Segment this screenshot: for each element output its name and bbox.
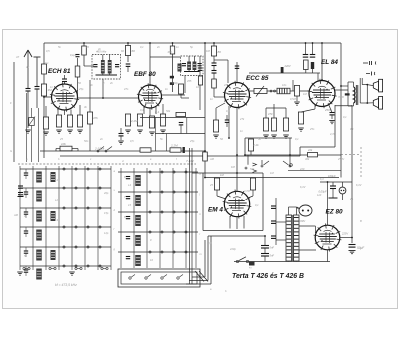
wire x=128 ext (127, 67, 129, 73)
wire x=84 into IF1 cap (84, 65, 94, 67)
svg-text:AM: AM (13, 213, 19, 217)
capacitor C27 on x=128 drop (126, 63, 131, 65)
coil L5 with core (36, 250, 42, 261)
ground R5 (77, 129, 83, 131)
capacitor C15 (271, 235, 276, 237)
resistor R23 cathode EL84 (298, 112, 303, 124)
coil L3 with core (36, 211, 42, 222)
wire C23 (180, 125, 182, 134)
wire vertical x=245 (244, 138, 246, 155)
resistor R11 (137, 114, 142, 126)
wire vertical drop x=84 (83, 43, 85, 66)
svg-text:7-102: 7-102 (186, 159, 194, 163)
wire vertical x=300 link (299, 147, 301, 156)
tuner right half column wires (120, 168, 122, 268)
ground bar C18 (329, 197, 338, 199)
wire T2 to EBF80 plate link (184, 76, 186, 94)
IF transformer T1 shield can (92, 55, 121, 80)
svg-text:80: 80 (218, 50, 222, 54)
svg-text:ECC 85: ECC 85 (246, 75, 269, 82)
wire vertical drop x=214 (213, 43, 215, 56)
wire EBF80 pins down (143, 107, 145, 114)
wire mains line y=261.5 (234, 261, 330, 263)
svg-text:12p: 12p (104, 231, 109, 235)
wire nested return 3 (186, 283, 211, 285)
svg-text:60: 60 (132, 49, 136, 53)
capacitor C11 top (310, 54, 316, 56)
resistor R8 top x=128 (125, 46, 130, 56)
ground R23 (298, 127, 304, 129)
wire y=155 link under ECC85 (245, 154, 341, 156)
trimmer capacitor CT1 (29, 118, 35, 126)
resistor R12 (149, 116, 154, 128)
ground R11 (137, 129, 143, 131)
wire vertical x=335 (334, 105, 336, 147)
wire C12 (328, 103, 332, 113)
svg-text:220p: 220p (229, 247, 236, 251)
coil L21 (135, 195, 141, 206)
switch contacts on audio line (270, 90, 272, 92)
wire vertical drop x=172.5 (172, 43, 174, 92)
connector symbol 2 (366, 73, 370, 75)
wire transformer left leads (276, 221, 286, 223)
coil L14 (51, 250, 56, 260)
svg-text:0,05μF: 0,05μF (319, 190, 327, 194)
wire C8 (226, 115, 228, 120)
capacitor dark C22 (311, 62, 314, 69)
resistor R22 screen (304, 60, 309, 70)
wire FM dipole x=200 (199, 56, 201, 110)
ground R3 (56, 129, 62, 131)
wire C16 C17 vertical (264, 236, 266, 246)
wire switch row stubs (247, 155, 249, 165)
wire R2-R5 to AVC line (45, 129, 47, 151)
dashed HT continuation (341, 154, 361, 156)
wire AVC line y=151 (40, 150, 205, 152)
band switch contact S1c (289, 165, 291, 167)
wire screen bus y=177.5 (205, 177, 339, 179)
switch contacts row 6 (63, 265, 65, 267)
wire EM4 pins bottom (229, 216, 231, 229)
capacitor on dipole line (198, 67, 203, 69)
IF transformer T2 shield can (181, 56, 204, 76)
svg-text:EL 84: EL 84 (321, 59, 338, 66)
switch contact on AVC line a (97, 150, 99, 152)
resistor R29 right of ECH81 top (75, 66, 80, 77)
wire to ECC85 grid (213, 88, 215, 97)
wire EM4 loop bottom (203, 230, 263, 232)
svg-text:0,1: 0,1 (208, 241, 212, 245)
svg-text:G: G (10, 149, 12, 153)
coil L1 with core (36, 172, 42, 183)
wire ECH81 grid from rail (44, 96, 52, 98)
capacitor tuner right row 5 (126, 256, 130, 258)
svg-text:25p: 25p (78, 87, 84, 91)
wire left rail x=26.3 (25, 93, 27, 162)
capacitor tuner right row 4 (126, 236, 130, 238)
ground R20 (283, 134, 289, 136)
svg-text:47k: 47k (93, 116, 98, 120)
resistor R10 (125, 114, 130, 126)
wire EZ80 bottom (327, 250, 329, 262)
coil L2 with core (36, 191, 42, 202)
capacitor C13 (271, 205, 276, 207)
switch contacts right row 2 (149, 191, 151, 193)
resistor R5 (77, 115, 82, 127)
coil L4 with core (36, 230, 42, 241)
resistor R27 volume feed (140, 148, 151, 152)
ground R12 (149, 131, 155, 133)
svg-text:2A: 2A (349, 197, 353, 201)
dashed boundary of tuner unit (18, 163, 196, 165)
svg-text:0,5: 0,5 (46, 49, 50, 53)
capacitor C7 (235, 65, 240, 67)
wire antenna A1 down (27, 91, 29, 128)
pilot lamp (339, 187, 346, 194)
ground R4 (67, 129, 73, 131)
antenna A1 symbol (24, 50, 28, 57)
svg-text:6,3V: 6,3V (356, 183, 362, 187)
svg-text:15p: 15p (104, 211, 109, 215)
wire AVC stub (56, 148, 60, 150)
resistor R15b (212, 79, 217, 88)
trimmer capacitor row 1 (24, 172, 28, 174)
wire C18 leads (332, 182, 334, 186)
svg-text:47n: 47n (124, 87, 129, 91)
wire x214 links (213, 56, 215, 63)
capacitor C6b (212, 70, 217, 72)
wire vertical x=322 to EL84 (321, 43, 323, 80)
capacitor C10 top (303, 54, 309, 56)
trimmer capacitor row 5 (24, 250, 28, 252)
svg-text:0,1: 0,1 (140, 45, 144, 49)
coil L10 (51, 172, 56, 182)
svg-text:220V: 220V (298, 219, 305, 223)
ground C5 (118, 140, 124, 142)
ground R19 (271, 134, 277, 136)
resistor R16 left of ECC85 (213, 120, 218, 132)
svg-text:455: 455 (187, 79, 192, 83)
resistor R24 EM4 left (214, 178, 219, 190)
wire nested return 1 (192, 276, 205, 278)
wire ECC85 pins down (228, 106, 230, 138)
svg-text:20: 20 (85, 45, 89, 49)
trimmer capacitor row 3 (24, 211, 28, 213)
resistor R17 cathode (248, 139, 253, 151)
capacitor C5 under EBF80 (119, 133, 124, 135)
tuner left half row wires (20, 168, 111, 170)
svg-text:AT: AT (25, 65, 30, 69)
resistor R2 ECH81 grid leak (43, 117, 48, 129)
ground C19 (349, 250, 356, 252)
svg-text:0,1: 0,1 (343, 115, 347, 119)
svg-text:0,3: 0,3 (140, 108, 144, 112)
capacitor C9 coupling dark (281, 67, 284, 73)
trimmer capacitor row 4 (24, 230, 28, 232)
wire EM4 grid feed vertical (236, 156, 238, 191)
wire EZ80 cathode right (340, 237, 352, 239)
switch contact on AVC line b (105, 150, 107, 152)
wire R18-R20 tops (265, 108, 267, 118)
wire B+ distribution line y=156 (60, 155, 300, 157)
svg-text:20p: 20p (103, 191, 109, 195)
resistor R13 (160, 114, 165, 126)
dial unit contacts (129, 277, 131, 279)
wire OT primary loop (347, 82, 349, 106)
tube EBF80 V2 (139, 85, 162, 108)
resistor on dipole line (198, 76, 202, 85)
ground R13 (160, 129, 166, 131)
svg-text:2n: 2n (156, 45, 160, 49)
resistor R21 grid EL84 (294, 86, 299, 97)
wire diagonal switch link 1 (195, 271, 204, 282)
contact circle heater (290, 164, 293, 167)
antenna A2 symbol (34, 56, 41, 58)
resistor R31 22k on HT line (308, 153, 318, 157)
pickup connector symbol (363, 62, 368, 64)
capacitor C14 (271, 220, 276, 222)
wire trimmer leads (31, 108, 33, 118)
ground tuner left (17, 271, 23, 273)
svg-text:25p: 25p (189, 139, 195, 143)
coil L23 (135, 235, 141, 246)
svg-text:5nF: 5nF (270, 246, 275, 250)
svg-text:2-102a: 2-102a (94, 147, 105, 151)
wire x=290 drop (289, 138, 291, 155)
capacitor C1 antenna series (26, 88, 31, 90)
capacitor C23 below (179, 122, 184, 124)
wire vertical drop x=128 (127, 43, 129, 62)
wire rail x=38.7 (38, 108, 40, 162)
svg-text:50k: 50k (250, 167, 255, 171)
wire y=182 link (320, 181, 352, 183)
wire R14 stub (180, 94, 182, 98)
capacitor C25 small (76, 54, 80, 56)
svg-text:EM 4: EM 4 (208, 207, 223, 214)
wire ECH81 cathode pins down (57, 110, 59, 116)
output transformer core (355, 85, 357, 105)
ground C12 (329, 120, 335, 122)
potentiometer P2 tone (277, 88, 290, 94)
capacitor C18 above EZ80 (330, 185, 336, 187)
wire antenna A2 down (36, 89, 38, 108)
wire diagonal switch link 2 (199, 271, 208, 282)
wire ECC85 to EL84 audio (250, 90, 310, 92)
wire y=60 link (214, 59, 228, 61)
coil L22 (135, 215, 141, 226)
resistor R1 on x=44 rail (42, 64, 47, 74)
svg-text:27k: 27k (239, 117, 245, 121)
wire EBF80 bottom to AVC (127, 126, 129, 151)
resistor R6 AVC series (60, 146, 72, 151)
wire y=105.7 top right link (335, 105, 352, 107)
switch contacts right row 5 (149, 251, 151, 253)
svg-text:250V: 250V (324, 108, 333, 112)
switch contacts row 2 (63, 187, 65, 189)
switch contacts row 5 (63, 246, 65, 248)
tube ECH81 V1 (52, 84, 78, 110)
ground R16 (213, 134, 219, 136)
resistor R26 on detector line (176, 112, 186, 116)
svg-text:2n: 2n (99, 137, 103, 141)
band switch contact S1b (261, 165, 263, 167)
resistor R20 (283, 118, 288, 131)
resistor R15 x=214 (211, 46, 216, 56)
junction dots (83, 42, 85, 44)
wire x=270 column (275, 198, 277, 245)
svg-text:4,7k: 4,7k (330, 132, 336, 136)
wire vertical from top bus at x=44 (43, 43, 45, 158)
wire T4 bottom leads (288, 260, 290, 263)
resistor R3 cathode (56, 115, 61, 127)
svg-text:22k: 22k (307, 148, 313, 152)
coil L6 with core (36, 269, 42, 280)
wire T4 to EZ80 heater (299, 249, 316, 251)
svg-text:EBF 80: EBF 80 (134, 71, 156, 78)
wire y=57 link to IF2 (150, 56, 181, 58)
capacitor across OT (345, 93, 350, 95)
wire C5 stub (120, 128, 122, 134)
resistor R30 on x=84 drop (82, 46, 87, 55)
svg-text:470: 470 (268, 112, 273, 116)
speaker LS1 (373, 81, 378, 90)
wire R29 leads (77, 58, 79, 66)
mains fuse block (249, 262, 255, 266)
svg-text:250V: 250V (337, 157, 344, 161)
capacitor tuner right row 2 (126, 196, 130, 198)
svg-text:0,1: 0,1 (155, 110, 160, 114)
wire osc down (89, 80, 91, 112)
svg-text:0,5M: 0,5M (290, 97, 297, 101)
wire IF1 secondary down to EBF80 grid (102, 79, 104, 98)
svg-text:kf = 473,5 kHz: kf = 473,5 kHz (55, 283, 77, 287)
wire EL84 cathode (314, 104, 316, 109)
resistor R28 2,2M (170, 148, 181, 152)
wire detector line y=117.5 (140, 117, 205, 119)
capacitor tuner right row 1 (126, 176, 130, 178)
svg-text:Z: Z (354, 92, 357, 96)
svg-text:10k: 10k (61, 142, 66, 146)
tube EM4 V5 magic eye (224, 191, 249, 216)
trimmer capacitor row 2 (24, 191, 28, 193)
svg-text:225V: 225V (341, 232, 348, 236)
capacitor C16 5nF (261, 245, 269, 247)
svg-text:25: 25 (209, 183, 213, 187)
power transformer T4 secondary winding (294, 215, 300, 261)
screen partition double line (189, 148, 191, 284)
svg-text:5nF: 5nF (270, 254, 275, 258)
svg-text:0,1: 0,1 (350, 127, 354, 131)
svg-text:50μF: 50μF (357, 246, 365, 250)
ground R18 (263, 134, 269, 136)
scattered faint value labels (10, 45, 362, 293)
tuner left half column wires (19, 166, 21, 270)
resistor R9 top x=172.5 (170, 46, 174, 54)
wire speaker common (366, 85, 368, 103)
choke coil left of IF2 (178, 64, 182, 72)
svg-text:0,1: 0,1 (226, 109, 230, 113)
capacitor C12 cathode bypass (330, 112, 335, 114)
potentiometer P1 volume (254, 89, 267, 94)
wire EM4 loop right (262, 173, 264, 231)
switch contacts row 1 (63, 168, 65, 170)
svg-text:7000: 7000 (338, 95, 344, 99)
svg-text:25n: 25n (309, 127, 315, 131)
wire ECC85 cathode bus y=138 (245, 137, 292, 139)
ground R21 (294, 101, 300, 103)
wire nested return 2 (189, 280, 208, 282)
capacitor C4 above ECH81 (62, 78, 67, 80)
voltage selector plug (299, 205, 312, 216)
output transformer T3 winding (354, 87, 355, 103)
wire AF line y=133.5 (155, 133, 205, 135)
ground below antenna A1 (25, 129, 31, 131)
resistor R1b on x=44 rail (41, 84, 46, 96)
wire OT top feed (341, 85, 348, 87)
wire T4 secondary to EZ80 anode (299, 225, 315, 227)
svg-text:0,1: 0,1 (255, 203, 259, 207)
capacitor C24 dark (183, 147, 185, 153)
wire audio link y=73 (249, 72, 302, 74)
resistor R32 on screen line (203, 152, 208, 161)
svg-text:500: 500 (20, 193, 25, 197)
band switch contact S1a (245, 167, 247, 169)
wire vertical x=341 right HT drop (340, 43, 342, 178)
dashed vertical right (360, 147, 362, 178)
svg-text:EZ 80: EZ 80 (326, 209, 343, 216)
svg-text:2,2k: 2,2k (252, 143, 259, 147)
svg-text:AM: AM (209, 157, 215, 161)
wire ECH81 top pin (64, 82, 66, 85)
wire R16 top (215, 108, 217, 120)
wire y=170.4 link (288, 169, 341, 171)
wire vertical x=205 screen feed (204, 43, 206, 178)
svg-text:30k: 30k (305, 157, 310, 161)
wire ECH81 to EBF80 signal (78, 97, 139, 99)
wire T4 primary top leads (288, 207, 290, 215)
svg-text:6,3: 6,3 (320, 177, 324, 181)
wire vertical x=150 to EBF80 anode (149, 43, 151, 85)
coil L24 (135, 255, 141, 266)
capacitor C8 (225, 119, 230, 121)
capacitor C17 5nF (261, 253, 269, 255)
ground R2 (43, 131, 49, 133)
wire y=147 right link (300, 146, 335, 148)
wire EBF80 right pin to IF2 (162, 94, 186, 96)
wire C10 C11 leads (305, 43, 307, 55)
capacitor C2 antenna series (35, 86, 40, 88)
resistor R7 oscillator (87, 112, 92, 124)
wire R21 stubs (292, 80, 294, 91)
switch contacts row 4 (63, 226, 65, 228)
svg-text:ECH 81: ECH 81 (48, 68, 71, 75)
wire R17 bottom (250, 151, 252, 155)
tube EL84 V4 (309, 81, 335, 107)
wire EL84 anode to OT (335, 89, 348, 91)
capacitor C6 on x=214 (212, 62, 217, 64)
power transformer T4 primary winding (286, 215, 292, 261)
svg-text:Terta T 426 és T 426 B: Terta T 426 és T 426 B (232, 273, 304, 280)
switch contacts right row 1 (149, 171, 151, 173)
wire x=228 vertical (227, 60, 229, 83)
resistor R4 (67, 115, 72, 127)
svg-text:2,2M: 2,2M (130, 119, 138, 123)
wire ECC85 top pin (236, 62, 238, 83)
svg-text:110: 110 (317, 193, 322, 197)
tube ECC85 V3 (225, 83, 250, 108)
svg-text:220: 220 (299, 167, 305, 171)
svg-text:220V: 220V (284, 64, 291, 68)
